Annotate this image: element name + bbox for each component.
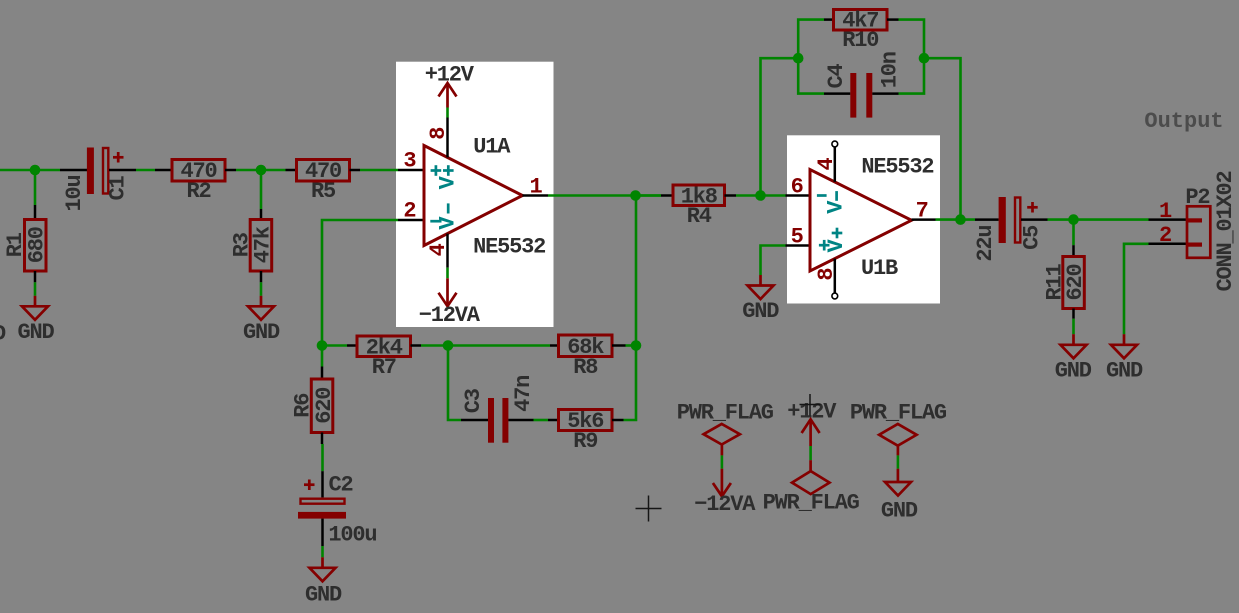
resistor R9 [559,410,613,431]
node junction R8 right [631,340,642,351]
resistor R11 pin bottom [1072,309,1075,319]
svg-text:GND: GND [17,320,54,345]
node junction feedback left [317,340,328,351]
svg-text:GND: GND [243,320,280,345]
wire pin4 to -12VA [446,268,449,279]
svg-text:R4: R4 [687,204,712,229]
U1B pin 8 [834,259,837,293]
wire junction down to C4 [798,58,824,93]
svg-text:+12V: +12V [425,63,475,88]
resistor R2 [172,160,225,182]
node junction C3 top [443,340,454,351]
op-amp U1B triangle [810,170,912,272]
wire C2 to GND [321,546,324,557]
svg-text:47k: 47k [251,226,276,263]
svg-text:C4: C4 [824,64,849,89]
svg-text:100u: 100u [328,522,376,547]
resistor R8 [559,335,613,357]
U1A pin 2 wire from feedback [322,220,398,346]
node junction U1B in [755,190,766,201]
svg-text:R1: R1 [3,232,28,257]
svg-text:R8: R8 [573,355,598,380]
svg-text:PWR_FLAG: PWR_FLAG [763,490,860,515]
svg-text:Output: Output [1144,109,1223,134]
wire pin8 to +12V [446,108,449,118]
power +12V up arrow [802,419,820,446]
resistor R6 pin top [321,367,324,380]
wire pin2 to GND [1124,244,1149,334]
capacitor C3 [488,398,508,443]
U1B pin 7 [912,218,936,221]
resistor R11 pin top [1072,245,1075,256]
svg-text:V: V [823,200,848,214]
U1B pin 6 [786,194,811,197]
wire pwrflag3 [897,455,900,468]
resistor R10 pin left [824,18,834,21]
svg-text:3: 3 [403,149,416,174]
wire R6 to C2 [321,444,324,471]
svg-text:NE5532: NE5532 [861,155,933,180]
ground R3 [248,296,274,320]
svg-text:2: 2 [403,199,415,224]
resistor R10 pin right [887,18,899,21]
U1B pin 4 [834,147,837,182]
wire vertical feedback to output [635,196,638,346]
svg-text:10u: 10u [62,175,87,211]
wire R9 to vertical [624,346,637,421]
resistor R4 pin right [725,194,737,197]
wire junction to R11 [1072,220,1075,246]
capacitor C5 pin right [1021,218,1048,221]
resistor R5 pin right [350,169,361,172]
U1A V- name [447,203,450,213]
U1A pin 2 [398,219,423,222]
wire junction down to R6 [321,346,324,367]
crosshair marker +12V [800,394,821,416]
wire C5 to P2 [1048,218,1149,221]
resistor R3 [250,220,272,272]
capacitor C1 pin left [60,169,87,172]
U1B pin 8 open end [832,293,838,299]
capacitor C3 pin left [461,419,488,422]
svg-text:C5: C5 [1020,225,1045,250]
wire R8 to vertical junction [626,344,637,347]
resistor R5 pin left [286,169,297,172]
P2 pin 1 pad [1188,218,1202,222]
capacitor C2 pin top [321,471,324,497]
svg-text:R9: R9 [573,429,597,454]
PWR_FLAG 1 pin [721,445,724,456]
svg-text:R5: R5 [311,179,336,204]
resistor R2 pin right [225,169,236,172]
resistor R8 pin left [550,344,559,347]
svg-text:2: 2 [1159,223,1171,248]
svg-text:V: V [436,175,461,189]
U1A pin 1 [523,194,549,197]
resistor R3 pin top [260,209,263,220]
svg-text:NE5532: NE5532 [473,235,545,260]
wire junction to R4 [636,194,662,197]
connector P2 pin 2 [1149,243,1188,246]
wire C3 to R9 [534,419,549,422]
wire C4 to right junction [899,58,925,93]
svg-text:1: 1 [529,174,542,199]
node junction R3 [256,165,267,176]
svg-text:GND: GND [1055,359,1092,384]
node junction U1B out [955,214,966,225]
resistor R2 pin left [155,169,172,172]
crosshair marker sheet [636,496,662,522]
resistor R9 pin left [548,419,559,422]
ground P2 [1111,334,1137,358]
svg-text:R6: R6 [291,394,316,418]
node junction feedback right upper [919,53,930,64]
resistor R5 [297,160,350,182]
wire junction to R7 [322,344,347,347]
P2 pin 2 pad [1188,243,1202,247]
svg-text:6: 6 [791,175,803,200]
svg-text:GND: GND [881,498,918,523]
wire input net left [0,169,60,172]
wire R7 to R8 [421,344,550,347]
wire junction to R3 [260,170,263,209]
connector P2 pin 1 [1149,218,1188,221]
wire U1B out to C5 [936,218,976,221]
ground R1 [22,296,48,320]
svg-text:V: V [824,239,849,253]
resistor R4 pin left [661,194,673,197]
wire U1A out to R4 [548,194,661,197]
U1A pin 3 [398,169,423,172]
wire junction to R1 [34,170,37,205]
svg-text:C3: C3 [461,388,486,413]
resistor R1 [25,220,47,272]
U1B pin 4 open end [832,141,838,147]
U1B pin 5 [786,244,811,247]
wire pwrflag2 [809,446,812,460]
ground C2 [310,557,336,581]
svg-text:47n: 47n [511,376,536,412]
svg-text:V: V [436,216,461,230]
svg-text:−12VA: −12VA [419,303,481,328]
resistor R4 [673,185,725,206]
wire junction up to feedback [761,58,799,195]
svg-text:GND: GND [742,299,779,324]
power -12VA [439,278,457,306]
wire R3 to GND [260,282,263,296]
node junction feedback left upper [793,53,804,64]
wire feedback to output [924,58,961,219]
PWR_FLAG 3 pin [897,446,900,456]
ground U1B [748,275,774,299]
resistor R7 pin left [347,344,357,347]
ground pwrflag3 [885,469,911,496]
svg-text:R11: R11 [1043,264,1068,301]
U1A pin2 name minus [430,220,441,223]
op-amp U1A triangle [424,146,523,246]
wire junction down to C3 [448,346,461,421]
capacitor C4 pin left [824,92,850,95]
wire R5 to U1A pin3 [360,169,398,172]
svg-text:PWR_FLAG: PWR_FLAG [677,400,774,425]
node junction R11 top [1068,214,1079,225]
svg-text:22u: 22u [973,226,998,262]
node junction input [30,165,41,176]
capacitor C3 pin right [508,419,533,422]
U1B pin5 name plus [819,240,830,251]
wire R1 to GND [34,282,37,296]
svg-text:CONN_01X02: CONN_01X02 [1213,171,1238,291]
svg-text:R7: R7 [372,355,396,380]
PWR_FLAG 2 pin [809,460,812,471]
PWR_FLAG 1 flag [704,424,740,445]
resistor R3 pin bottom [260,271,263,282]
capacitor C5 [999,197,1038,243]
resistor R1 pin bottom [34,271,37,282]
capacitor C1 [87,148,124,195]
svg-text:PWR_FLAG: PWR_FLAG [850,400,947,425]
svg-text:C2: C2 [328,473,352,498]
U1B V- name [835,191,838,201]
ground R11 [1061,334,1087,358]
power +12V [439,83,457,108]
svg-text:U1A: U1A [473,135,511,160]
U1B V+ name [832,228,843,239]
svg-text:R3: R3 [229,232,254,257]
resistor R9 pin right [612,419,624,422]
U1A pin3 name plus [431,165,442,176]
wire R10 to right junction [899,20,925,59]
U1A pin 4 [446,234,449,268]
resistor R6 pin bottom [321,433,324,445]
wire R11 to GND [1072,319,1075,335]
capacitor C1 pin right [109,169,136,172]
resistor R11 [1063,257,1085,309]
wire R4 to U1B pin6 [736,194,786,197]
svg-text:P2: P2 [1185,185,1209,210]
wire C1 to R2 [136,169,155,172]
svg-text:R2: R2 [186,179,210,204]
svg-text:C1: C1 [106,176,131,201]
resistor R7 pin right [411,344,422,347]
U1A V+ name [443,165,454,176]
node junction U1A out [630,190,641,201]
PWR_FLAG 3 flag [879,424,917,446]
svg-text:680: 680 [24,227,49,263]
svg-text:GND: GND [305,583,342,608]
resistor R8 pin right [612,344,626,347]
svg-text:7: 7 [916,199,928,224]
U1B pin6 name minus [817,194,827,197]
connector P2 body [1187,206,1210,257]
wire pwrflag1 [721,455,724,468]
op-amp U1B background [787,135,940,303]
resistor R1 pin top [34,205,37,220]
power -12VA down arrow [713,469,731,497]
U1A pin 8 [446,118,449,158]
resistor R10 [834,10,888,31]
capacitor C4 pin right [872,92,898,95]
capacitor C2 [298,480,346,519]
capacitor C4 [850,73,872,118]
wire junction up to R10 [798,20,824,59]
op-amp U1A background [396,62,554,327]
svg-text:10n: 10n [878,52,903,88]
resistor R6 [311,379,333,433]
PWR_FLAG 2 flag [792,471,830,494]
resistor R7 [357,336,411,357]
capacitor C5 pin left [975,218,999,221]
wire R2 to R5 [236,169,286,172]
svg-text:1: 1 [1159,199,1172,224]
capacitor C2 pin bottom [321,519,324,546]
svg-text:U1B: U1B [861,256,898,281]
svg-text:GND: GND [1106,359,1143,384]
svg-text:R10: R10 [842,28,878,53]
svg-text:5: 5 [791,225,804,250]
U1B pin 5 wire from GND [761,246,786,276]
svg-text:−12VA: −12VA [694,492,756,517]
